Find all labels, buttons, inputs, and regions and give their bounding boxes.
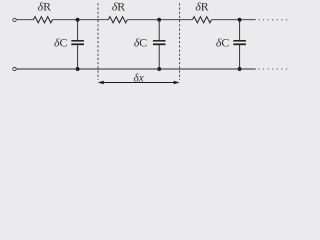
capacitor C3 top lead [239, 20, 241, 40]
node dot C2 bottom [157, 67, 161, 71]
node dot C1 bottom [76, 67, 80, 71]
dashed cell boundary line right [179, 3, 181, 80]
dimension arrow line dx [103, 82, 175, 84]
capacitor C2 plates [153, 40, 166, 42]
capacitor C2 bottom lead [158, 45, 160, 69]
wire top rail: R1 to node 1 [52, 19, 77, 21]
resistor R1 [33, 17, 52, 23]
svg-text:δC: δC [134, 36, 147, 50]
dotted continuation top rail [258, 19, 287, 20]
wire bottom rail [16, 68, 255, 70]
node dot C3 bottom [238, 67, 242, 71]
svg-text:δR: δR [195, 0, 208, 14]
capacitor C3 bottom lead [239, 45, 241, 69]
dashed cell boundary line left [97, 3, 99, 80]
wire top rail: R2 to node 2 [127, 19, 159, 21]
svg-text:δC: δC [216, 36, 229, 50]
capacitor C2 top lead [158, 20, 160, 40]
terminal circle bottom-left [13, 67, 16, 70]
svg-text:δC: δC [54, 36, 67, 50]
wire top rail: node 3 to continuation [240, 19, 256, 21]
arrowhead left [98, 81, 105, 85]
wire top rail: node 1 to R2 [78, 19, 109, 21]
svg-text:δR: δR [38, 0, 51, 14]
wire top rail: terminal to R1 [16, 19, 33, 21]
node junction dot 3 [238, 18, 242, 22]
capacitor C1 bottom lead [77, 45, 79, 69]
resistor R3 [193, 17, 212, 23]
wire top rail: node 2 to R3 [159, 19, 192, 21]
node junction dot 1 [76, 18, 80, 22]
svg-text:δx: δx [134, 73, 144, 85]
dotted continuation bottom rail [258, 68, 287, 69]
svg-text:δR: δR [112, 0, 125, 14]
resistor R2 [108, 17, 127, 23]
capacitor C1 plates [71, 40, 84, 42]
node junction dot 2 [157, 18, 161, 22]
capacitor C3 plates [233, 40, 246, 42]
terminal circle top-left [13, 18, 16, 21]
wire top rail: R3 to node 3 [212, 19, 240, 21]
capacitor C1 top lead [77, 20, 79, 40]
arrowhead right [173, 81, 180, 85]
